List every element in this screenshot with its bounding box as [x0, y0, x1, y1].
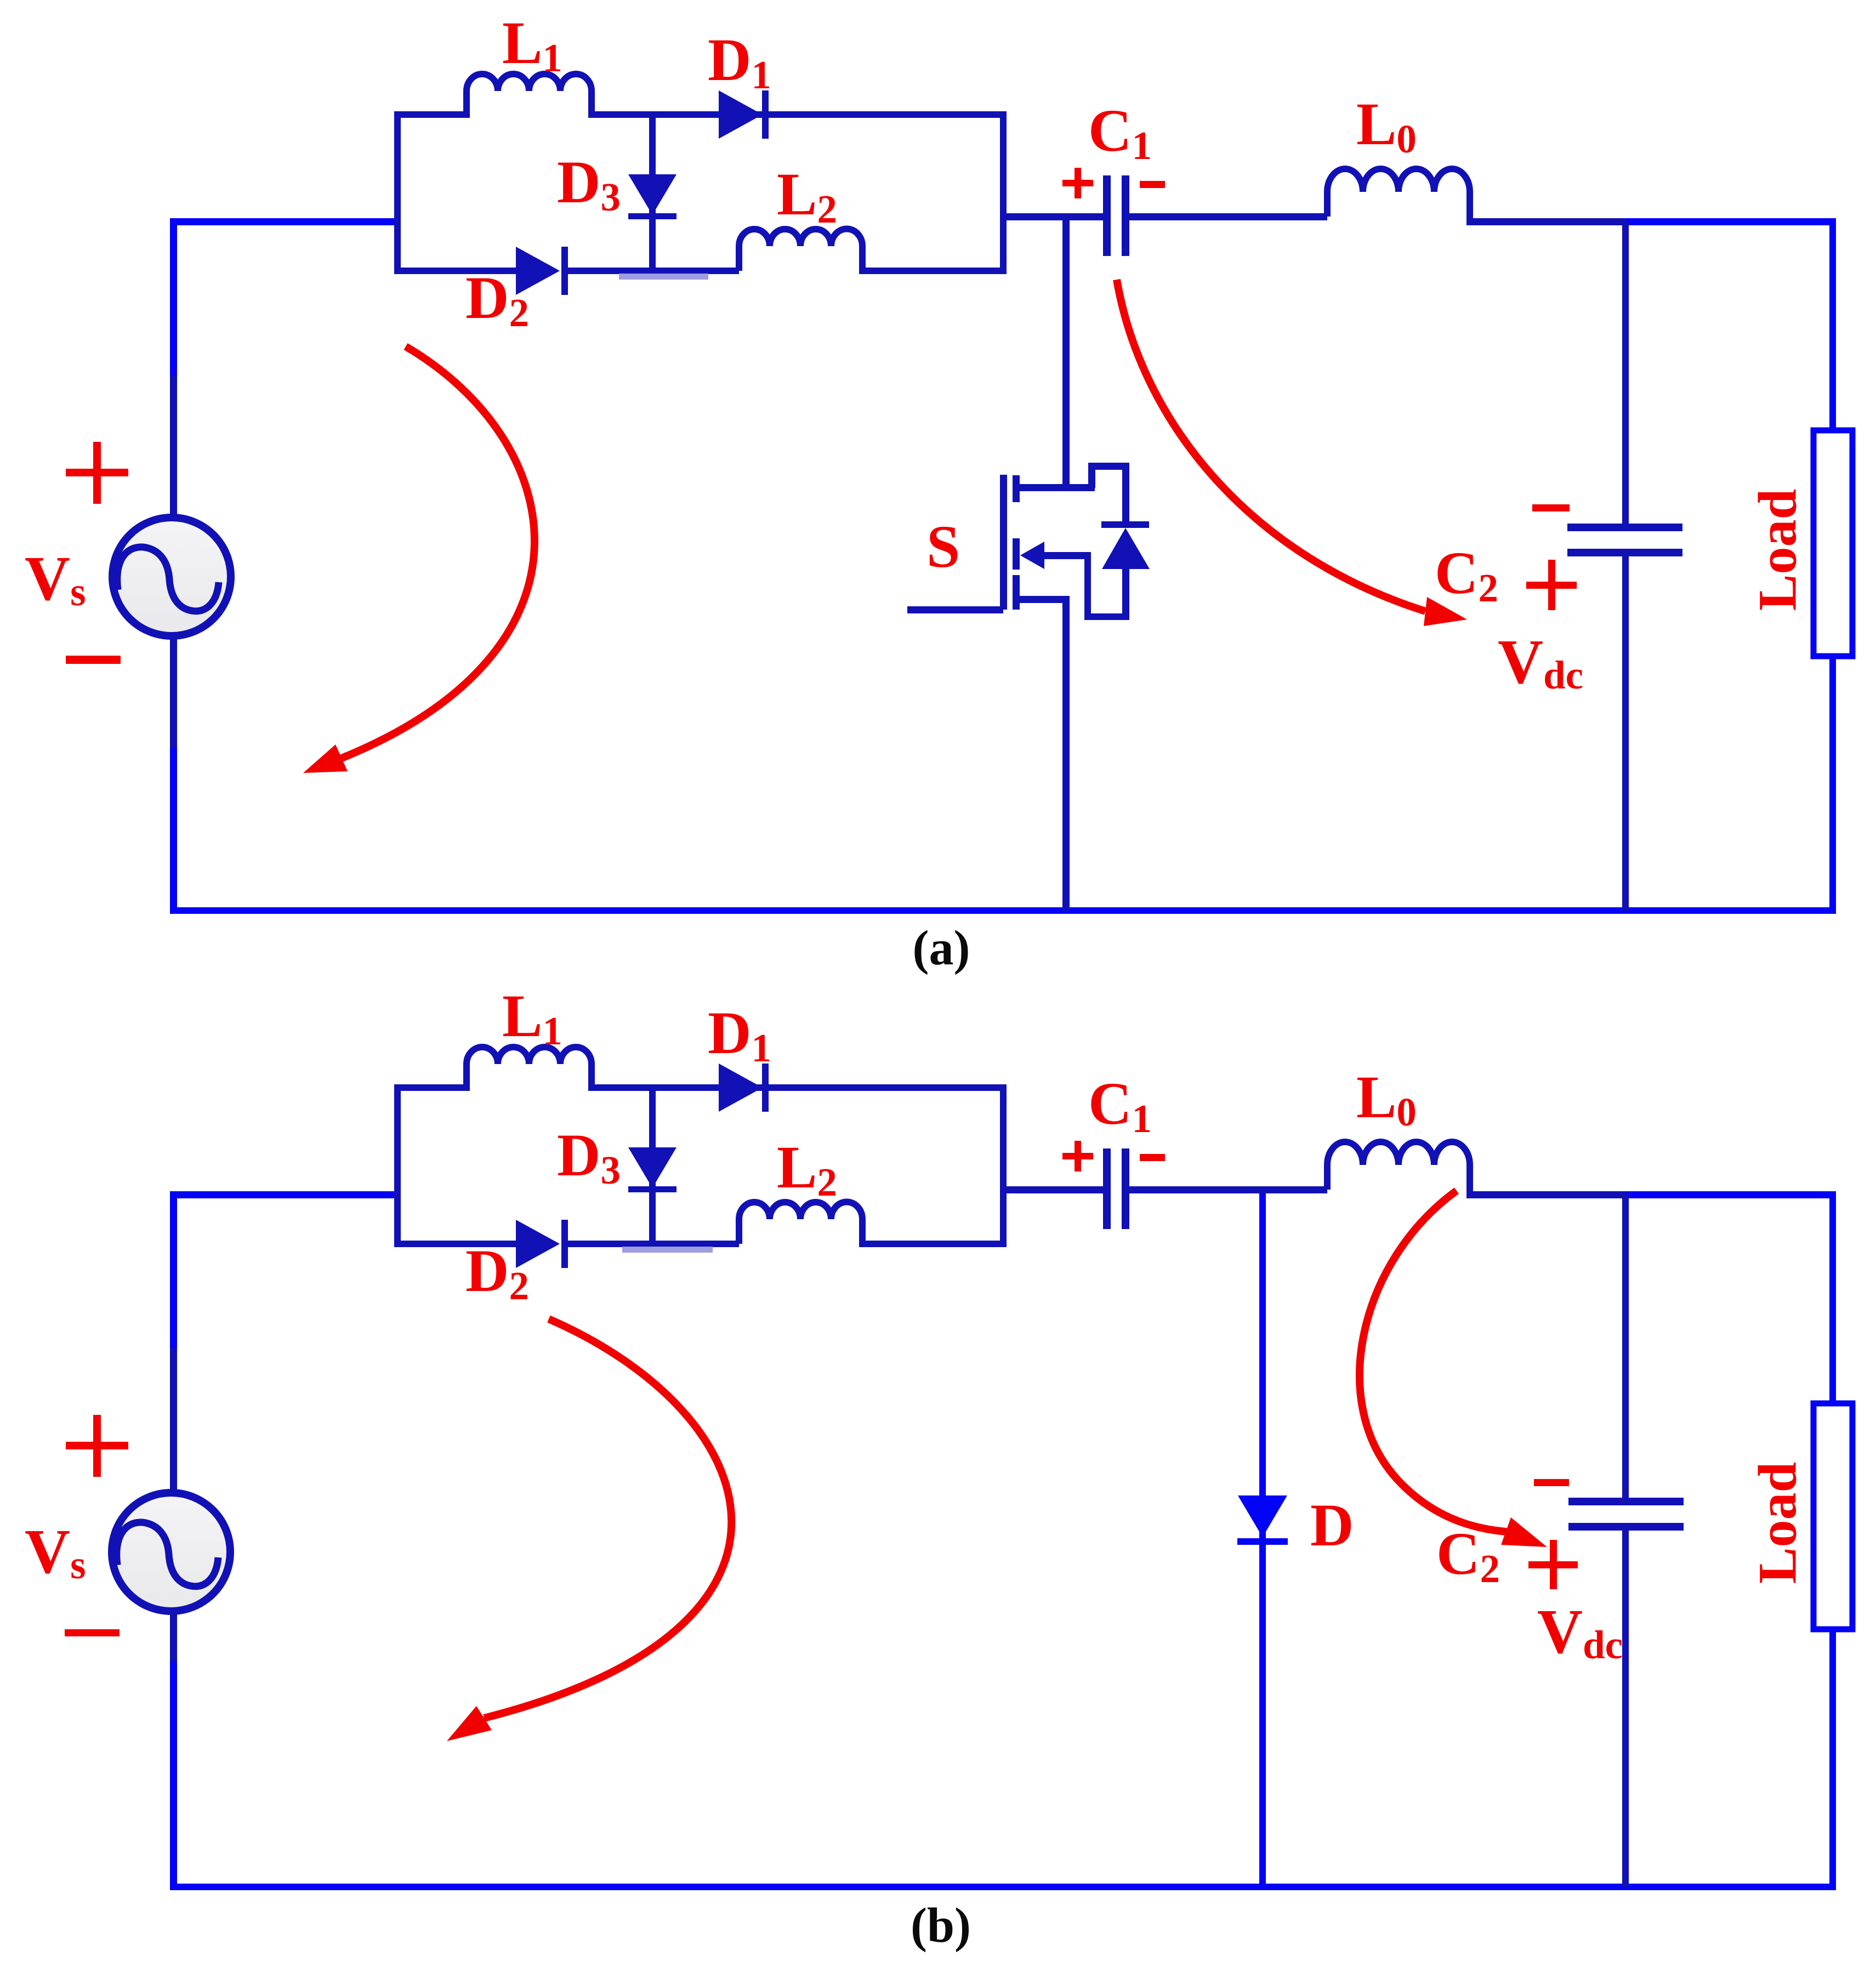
- wire: left vertical navy above source circle: [170, 375, 177, 519]
- body-diode branch lower vertical: [1122, 569, 1129, 620]
- capacitor C2: [1567, 524, 1682, 531]
- top horizontal to body diode: [1088, 463, 1129, 470]
- wire: bridge top rail left part: [394, 1084, 470, 1091]
- wire: bridge top rail right part: [588, 111, 1003, 118]
- wire: left vertical navy below source circle: [170, 636, 177, 747]
- wire: bridge bottom rail right part: [859, 268, 1003, 274]
- body diode triangle: [1102, 528, 1150, 569]
- wire: left vertical lower segment (highlighted): [170, 747, 177, 914]
- mid channel stub: [1013, 538, 1020, 570]
- right riser: [1088, 463, 1095, 488]
- body-diode branch upper vertical: [1122, 463, 1129, 525]
- freewheeling diode D branch (highlighted): [1259, 1193, 1266, 1887]
- wire: C1 to L0: [1129, 213, 1327, 220]
- wire: bridge top rail right part: [588, 1084, 1003, 1091]
- inductor L1: [467, 74, 592, 118]
- wire: C2 junction to right corner (highlighted): [1625, 1191, 1836, 1198]
- minus sign of C1: [1140, 181, 1165, 188]
- diode D2: [516, 247, 568, 295]
- wire: left vertical navy below source circle: [170, 1611, 177, 1661]
- capacitor C1: [1103, 1148, 1111, 1229]
- wire: C2 branch vertical lower: [1622, 1531, 1629, 1887]
- red current arc from D2 down-left (big loop): [484, 1319, 731, 1718]
- inductor L2: [739, 229, 862, 271]
- bottom-right horizontal: [1084, 613, 1129, 620]
- source Vs circle: [112, 1493, 230, 1611]
- load resistor rectangle: [1814, 1403, 1852, 1629]
- wire: bridge output to C1: [1003, 213, 1103, 220]
- svg-text:(b): (b): [911, 1898, 971, 1953]
- sine wave inside Vs: [117, 1522, 218, 1586]
- red current arc from D2 down-left: [342, 346, 535, 758]
- wire: bottom rail (highlighted): [170, 907, 1836, 914]
- wire: C2 branch vertical lower: [1622, 556, 1629, 911]
- svg-text:Load: Load: [1747, 489, 1808, 611]
- drain wire vertical: [1062, 217, 1070, 488]
- wire: bridge bottom rail middle part: [568, 268, 739, 274]
- wire: bridge output to C1: [1003, 1186, 1103, 1193]
- diode D3 (vertical) with its wire: [649, 1088, 656, 1243]
- wire: right edge down to load (highlighted): [1829, 218, 1836, 429]
- body diode cathode bar: [1101, 521, 1149, 528]
- capacitor C1: [1103, 175, 1111, 256]
- artifact light bar under D3: [619, 274, 708, 280]
- artifact light bar under D3: [622, 1247, 713, 1253]
- wire: bridge right edge: [1000, 1084, 1007, 1247]
- plus sign of Vs: [66, 1415, 128, 1477]
- inductor L0: [1327, 169, 1470, 221]
- wire: C2 branch vertical upper: [1622, 221, 1629, 524]
- wire: bridge right edge: [1000, 111, 1007, 274]
- diode D1: [719, 1064, 769, 1112]
- plus sign of C2: [1528, 1540, 1578, 1589]
- red current arc from L0 to C2 plus: [1360, 1191, 1507, 1532]
- top channel stub: [1013, 475, 1020, 502]
- minus sign of C2: [1532, 504, 1570, 511]
- gate bar: [1000, 475, 1007, 610]
- wire: bridge left edge: [394, 111, 401, 274]
- inductor L0: [1327, 1142, 1470, 1195]
- drain lead: [1019, 484, 1095, 491]
- minus sign of Vs: [66, 656, 121, 664]
- red current arc from C1 to C2: [1117, 280, 1425, 611]
- inductor L2: [739, 1202, 862, 1244]
- plus sign of C1: [1062, 168, 1093, 198]
- svg-text:Load: Load: [1747, 1462, 1808, 1584]
- source Vs circle: [112, 517, 231, 636]
- plus sign of Vs: [66, 442, 128, 504]
- wire: L0 to C2 junction: [1466, 1191, 1625, 1198]
- source wire vertical: [1062, 596, 1070, 911]
- wire: left vertical lower segment (highlighted): [170, 1661, 177, 1890]
- diode D3 (vertical) with its wire: [649, 115, 656, 270]
- bottom channel stub: [1013, 575, 1020, 610]
- wire: C1 to L0: [1129, 1186, 1327, 1193]
- wire: L0 to C2 junction: [1466, 218, 1625, 225]
- MOSFET S: [907, 217, 1150, 911]
- wire: top-left horizontal from source to bridge (highlighted): [170, 1191, 397, 1198]
- wire: C2 junction to right corner (highlighted): [1625, 218, 1836, 225]
- wire: bridge bottom rail middle part: [568, 1241, 739, 1247]
- wire: left vertical upper segment (highlighted): [170, 218, 177, 375]
- load resistor rectangle: [1814, 430, 1852, 656]
- wire: C2 branch vertical upper: [1622, 1195, 1629, 1498]
- svg-text:(a): (a): [913, 921, 970, 975]
- plus sign of C2: [1526, 560, 1577, 610]
- wire: bridge bottom rail left part: [394, 268, 516, 274]
- wire: bridge bottom rail left part: [394, 1241, 516, 1247]
- gate lead: [907, 606, 1003, 613]
- wire: right edge down to load (highlighted): [1829, 1191, 1836, 1402]
- wire: left vertical upper segment (highlighted): [170, 1191, 177, 1349]
- bottom lead: [1019, 596, 1070, 603]
- inductor L1: [467, 1047, 592, 1091]
- wire: top-left horizontal from source to bridge (highlighted): [170, 218, 397, 225]
- svg-text:S: S: [926, 513, 960, 580]
- wire: below load to bottom rail (highlighted): [1829, 1629, 1836, 1887]
- wire: left vertical navy above source circle: [170, 1349, 177, 1492]
- minus sign of C2: [1534, 1479, 1569, 1486]
- wire: bridge top rail left part: [394, 111, 470, 118]
- wire: below load to bottom rail (highlighted): [1829, 656, 1836, 911]
- minus sign of Vs: [65, 1629, 120, 1636]
- mid lead with arrow: [1039, 552, 1091, 559]
- wire: bottom rail (highlighted): [170, 1884, 1836, 1890]
- source-mid vertical: [1084, 555, 1091, 617]
- sine wave inside Vs: [117, 547, 219, 611]
- diode D2: [516, 1220, 568, 1268]
- capacitor C2: [1568, 1498, 1684, 1505]
- minus sign of C1: [1140, 1154, 1165, 1161]
- plus sign of C1: [1062, 1141, 1093, 1171]
- svg-text:D: D: [1310, 1492, 1354, 1559]
- wire: bridge bottom rail right part: [859, 1241, 1003, 1247]
- diode D1: [719, 90, 769, 139]
- wire: bridge left edge: [394, 1084, 401, 1247]
